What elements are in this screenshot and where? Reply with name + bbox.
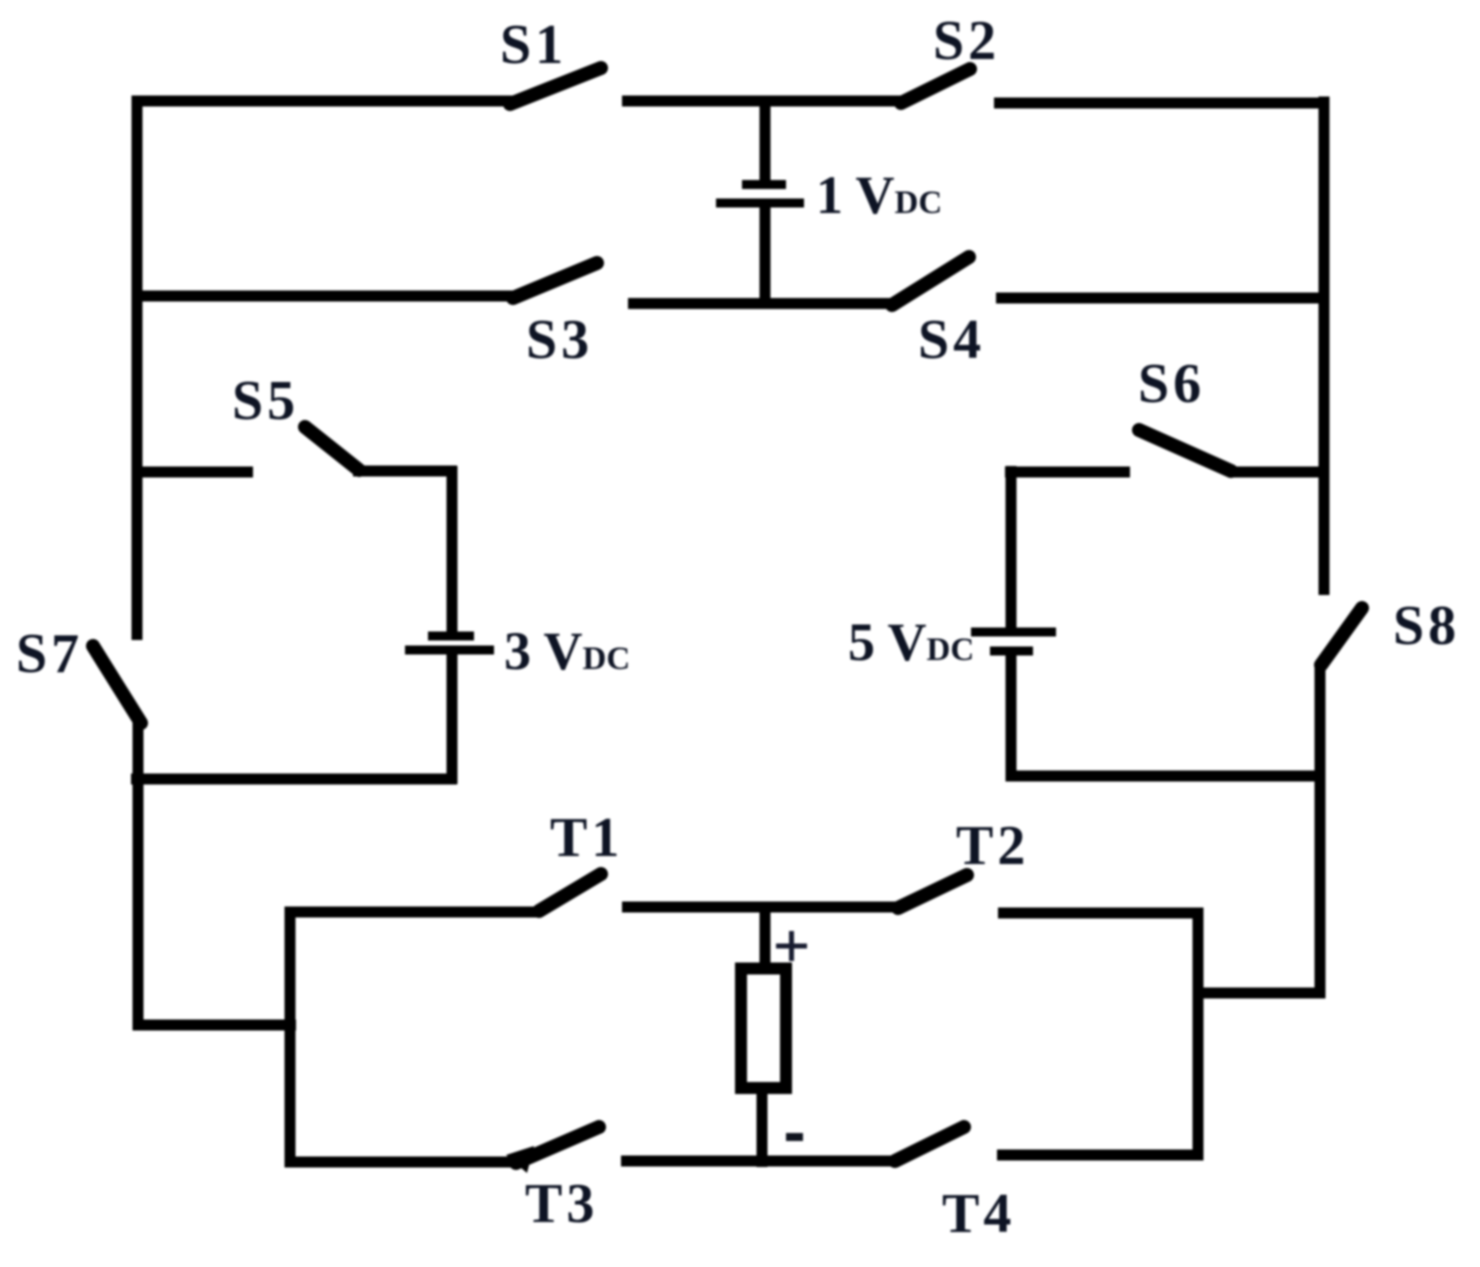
wire top row middle segment bbox=[622, 96, 905, 107]
switch S7 bbox=[93, 646, 141, 723]
switch S4 bbox=[892, 257, 969, 305]
wire second row middle segment bbox=[628, 298, 891, 309]
battery V1 positive lead wire bbox=[760, 101, 771, 181]
wire battery V5 top lead bbox=[1006, 466, 1017, 632]
svg-text:S4: S4 bbox=[918, 309, 985, 371]
wire S6 branch left bbox=[1005, 467, 1130, 478]
svg-text:T2: T2 bbox=[956, 815, 1029, 877]
switch T2 bbox=[898, 875, 967, 908]
battery V1 short plate bbox=[742, 180, 786, 189]
wire load bottom lead bbox=[757, 1090, 768, 1167]
wire left connector to T bridge bbox=[133, 1020, 297, 1031]
wire T3 row middle segment bbox=[621, 1156, 894, 1167]
switch T1 bbox=[539, 874, 601, 911]
resistor load bbox=[741, 969, 786, 1089]
svg-text:T4: T4 bbox=[942, 1183, 1015, 1245]
svg-text:S3: S3 bbox=[526, 309, 593, 371]
switch T4 bbox=[895, 1127, 964, 1161]
svg-text:S7: S7 bbox=[16, 623, 83, 685]
wire battery V5 bottom lead bbox=[1006, 655, 1017, 781]
battery V1 negative lead wire bbox=[760, 207, 771, 309]
wire right rail lower bbox=[1315, 663, 1326, 999]
battery V3 short plate bbox=[428, 632, 474, 641]
wire T3 row left segment bbox=[290, 1157, 520, 1168]
wire T bridge right vertical bbox=[1193, 908, 1204, 1161]
wire right rail upper bbox=[1319, 97, 1330, 596]
wire 5V loop bottom bbox=[1006, 771, 1326, 782]
polarity minus sign at load bbox=[786, 1133, 803, 1141]
wire T bridge left vertical bbox=[285, 907, 296, 1168]
svg-text:S1: S1 bbox=[500, 14, 567, 76]
switch S3 bbox=[513, 263, 597, 298]
wire S5 to battery V3 top bbox=[353, 466, 457, 477]
switch S6 bbox=[1139, 430, 1231, 471]
wire battery V3 top lead bbox=[447, 466, 458, 632]
battery V3 long plate bbox=[405, 646, 494, 655]
wire S6 branch right bbox=[1228, 467, 1329, 478]
wire S5 branch from left rail bbox=[132, 467, 253, 478]
polarity plus sign at load bbox=[776, 931, 807, 961]
battery V5 long plate bbox=[971, 628, 1056, 637]
switch S1 bbox=[510, 68, 601, 104]
wire T1 row left segment bbox=[290, 907, 538, 918]
wire battery V3 bottom lead bbox=[447, 654, 458, 784]
svg-text:S8: S8 bbox=[1393, 595, 1460, 657]
svg-text:5 VDC: 5 VDC bbox=[848, 612, 974, 672]
svg-text:1 VDC: 1 VDC bbox=[816, 165, 942, 225]
battery V5 short plate bbox=[990, 647, 1033, 656]
wire T1 row right segment bbox=[622, 902, 897, 913]
svg-text:S6: S6 bbox=[1138, 353, 1205, 415]
wire 3V loop bottom bbox=[131, 774, 457, 785]
wire load top lead bbox=[760, 912, 771, 966]
svg-text:S5: S5 bbox=[232, 370, 299, 432]
battery V1 long plate bbox=[716, 199, 804, 208]
wire second row right segment bbox=[996, 293, 1329, 304]
wire top row left segment bbox=[132, 96, 515, 107]
switch S5 bbox=[305, 427, 359, 470]
svg-text:3 VDC: 3 VDC bbox=[504, 621, 630, 681]
switch T3 bbox=[516, 1127, 599, 1163]
wire T2 row right segment bbox=[998, 908, 1204, 919]
wire left rail lower bbox=[133, 720, 144, 1030]
svg-text:T3: T3 bbox=[525, 1173, 598, 1235]
wire top row right segment bbox=[994, 98, 1329, 109]
wire left rail upper bbox=[132, 96, 143, 641]
svg-text:T1: T1 bbox=[550, 807, 623, 869]
wire T4 row right segment bbox=[997, 1150, 1204, 1161]
switch T3 contact barb bbox=[506, 1146, 534, 1173]
wire second row left segment bbox=[132, 291, 514, 302]
switch S8 bbox=[1321, 608, 1362, 665]
wire right connector to T bridge bbox=[1198, 988, 1326, 999]
svg-text:S2: S2 bbox=[933, 10, 1000, 72]
switch S2 bbox=[901, 69, 970, 103]
